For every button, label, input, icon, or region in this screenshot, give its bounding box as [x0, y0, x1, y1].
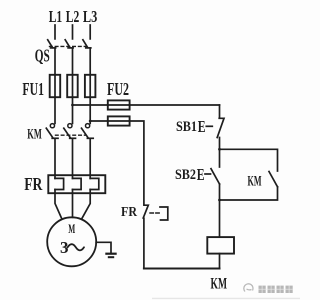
wire branch to KM aux upper — [220, 149, 278, 171]
wire L1 drop — [54, 25, 56, 39]
KM main contact 2 — [64, 124, 76, 139]
svg-text:FR: FR — [24, 174, 42, 194]
wire FR to motor 2 — [72, 193, 74, 217]
svg-text:L3: L3 — [83, 7, 97, 26]
wire KM to FR pole 2 — [72, 139, 74, 176]
svg-text:M: M — [68, 221, 75, 236]
wire L2 drop — [72, 25, 74, 39]
wire FR to bottom rail — [143, 218, 145, 268]
node branch to KM aux — [218, 148, 221, 151]
motor M circle — [47, 217, 96, 266]
wire SB2 to lower node — [219, 184, 221, 200]
fuse FU1 element 2 — [67, 75, 78, 97]
node tap L2 to FU2a — [71, 104, 74, 107]
thermal relay FR box — [48, 175, 105, 193]
svg-text:L2: L2 — [66, 7, 80, 26]
FR heater element 1 — [55, 175, 64, 193]
wire SB2 node to coil — [219, 200, 221, 237]
SB1 NC contact blade — [217, 118, 224, 137]
watermark text — [259, 286, 293, 293]
wire FU1 to KM pole 2 — [72, 97, 74, 123]
wire FR to motor 1 — [55, 193, 62, 219]
svg-text:E: E — [198, 117, 206, 136]
wire control top to SB1 — [219, 105, 221, 118]
svg-text:SB1: SB1 — [176, 119, 197, 135]
bottom faint rule — [152, 297, 300, 299]
svg-text:SB2: SB2 — [175, 167, 196, 183]
svg-text:KM: KM — [211, 276, 228, 293]
wire QS to FU1 pole 1 — [54, 48, 56, 75]
switch QS pole 3 — [83, 40, 91, 48]
svg-text:FR: FR — [121, 205, 138, 220]
fuse FU2 element b — [108, 116, 130, 125]
motor tilde wave — [68, 244, 84, 250]
wire QS to FU1 pole 3 — [89, 48, 91, 75]
QS linkage dashed — [50, 45, 87, 47]
wire FU1 to KM pole 3 — [89, 97, 91, 123]
wire L3 drop — [89, 25, 91, 39]
wire tap to FU2b — [90, 120, 108, 122]
wire QS to FU1 pole 2 — [72, 48, 74, 75]
switch QS pole 2 — [65, 40, 73, 48]
wire FR to motor 3 — [82, 193, 91, 219]
svg-text:QS: QS — [35, 46, 50, 66]
KM linkage dashed — [56, 134, 86, 136]
wire FU2a to control line — [130, 104, 220, 106]
KM main contact 1 — [46, 124, 58, 139]
svg-text:L1: L1 — [49, 7, 63, 26]
SB1 actuator dash — [206, 125, 212, 127]
KM aux NO contact blade — [269, 172, 278, 187]
contactor coil KM — [207, 237, 234, 254]
wire coil to bottom — [219, 254, 221, 269]
FR actuator hook — [160, 207, 168, 220]
fuse FU2 element a — [108, 100, 130, 109]
node tap L3 to FU2b — [89, 120, 92, 123]
svg-text:E: E — [197, 165, 205, 184]
wire KM to FR pole 3 — [89, 139, 91, 176]
svg-text:FU1: FU1 — [22, 79, 44, 99]
fuse FU1 element 3 — [85, 75, 96, 97]
SB2 actuator dash — [205, 173, 211, 175]
wire motor to ground — [96, 242, 111, 253]
wire KM to FR pole 1 — [54, 139, 56, 176]
FR contact dash — [150, 212, 159, 214]
FR heater element 3 — [90, 175, 99, 193]
wire tap to FU2a — [73, 104, 108, 106]
KM main contact 3 — [82, 124, 94, 139]
bottom return wire — [144, 268, 220, 270]
SB2 NO contact blade — [211, 169, 220, 184]
FR heater element 2 — [73, 175, 82, 193]
node below SB2 — [218, 199, 221, 202]
svg-text:FU2: FU2 — [107, 79, 129, 99]
switch QS pole 1 — [48, 40, 56, 48]
ground — [106, 254, 115, 258]
watermark logo — [244, 284, 253, 292]
wire KM aux lower — [220, 187, 278, 200]
fuse FU1 element 1 — [50, 75, 61, 97]
wire FU1 to KM pole 1 — [54, 97, 56, 123]
wire FU2b to left control rail — [130, 121, 144, 205]
svg-text:KM: KM — [27, 127, 42, 143]
wire SB1 to branch node — [219, 138, 221, 168]
FR NC contact blade — [143, 205, 148, 218]
svg-text:KM: KM — [248, 174, 262, 190]
